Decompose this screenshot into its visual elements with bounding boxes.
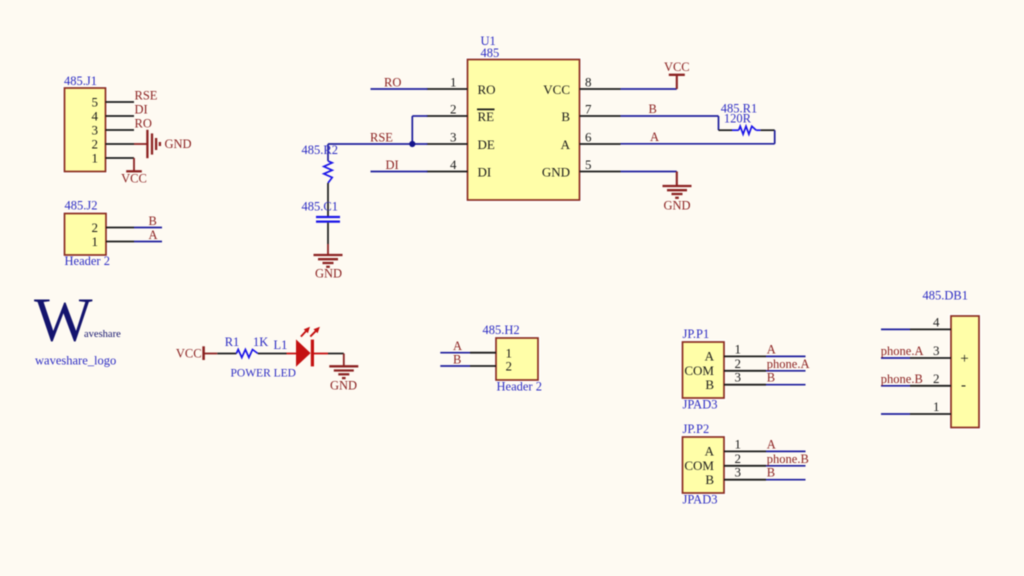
svg-text:phone.B: phone.B [767, 452, 809, 466]
svg-text:DI: DI [386, 158, 399, 172]
svg-text:3: 3 [450, 129, 457, 144]
svg-text:RSE: RSE [370, 130, 393, 144]
svg-text:485.J2: 485.J2 [65, 199, 98, 213]
svg-text:JP.P2: JP.P2 [683, 422, 710, 436]
svg-text:3: 3 [735, 370, 742, 385]
svg-text:B: B [453, 352, 461, 366]
svg-text:GND: GND [663, 199, 690, 213]
svg-text:B: B [767, 466, 775, 480]
svg-text:1: 1 [933, 399, 940, 414]
svg-text:W: W [34, 287, 93, 355]
svg-text:DE: DE [478, 137, 495, 152]
svg-text:RO: RO [478, 82, 496, 97]
svg-text:RE: RE [478, 109, 495, 124]
svg-text:B: B [705, 472, 714, 487]
svg-text:RO: RO [384, 75, 401, 89]
svg-text:RSE: RSE [135, 88, 158, 102]
svg-text:B: B [767, 371, 775, 385]
svg-text:485.DB1: 485.DB1 [923, 289, 969, 303]
svg-text:3: 3 [92, 123, 99, 138]
svg-text:GND: GND [315, 267, 342, 281]
svg-text:JPAD3: JPAD3 [683, 493, 718, 507]
svg-text:485.C1: 485.C1 [302, 200, 338, 214]
svg-text:1: 1 [735, 341, 742, 356]
svg-text:B: B [649, 102, 657, 116]
svg-text:2: 2 [92, 220, 99, 235]
svg-text:1: 1 [92, 151, 99, 166]
svg-text:6: 6 [585, 129, 592, 144]
svg-text:+: + [960, 351, 968, 367]
svg-text:GND: GND [542, 164, 570, 179]
svg-text:waveshare_logo: waveshare_logo [35, 354, 116, 368]
svg-text:A: A [149, 228, 158, 242]
svg-text:A: A [650, 130, 659, 144]
svg-text:DI: DI [135, 102, 148, 116]
svg-text:A: A [561, 137, 571, 152]
svg-text:5: 5 [585, 157, 592, 172]
svg-text:GND: GND [330, 379, 357, 393]
svg-text:RO: RO [135, 116, 152, 130]
svg-text:DI: DI [478, 164, 492, 179]
svg-text:Header 2: Header 2 [497, 380, 542, 394]
svg-text:3: 3 [933, 343, 940, 358]
svg-text:485.H2: 485.H2 [483, 323, 520, 337]
svg-text:phone.B: phone.B [881, 372, 923, 386]
svg-text:2: 2 [506, 359, 513, 374]
svg-text:1K: 1K [253, 335, 268, 349]
svg-text:-: - [961, 378, 966, 394]
svg-text:A: A [453, 339, 462, 353]
svg-text:GND: GND [165, 137, 192, 151]
svg-text:B: B [561, 109, 570, 124]
svg-text:B: B [705, 377, 714, 392]
svg-text:JPAD3: JPAD3 [683, 398, 718, 412]
svg-text:VCC: VCC [543, 82, 570, 97]
svg-text:2: 2 [735, 356, 742, 371]
svg-text:COM: COM [684, 363, 714, 378]
svg-text:4: 4 [92, 109, 99, 124]
svg-text:A: A [705, 444, 715, 459]
svg-text:3: 3 [735, 465, 742, 480]
svg-text:1: 1 [92, 234, 99, 249]
svg-text:485.R2: 485.R2 [302, 143, 338, 157]
svg-text:4: 4 [450, 157, 457, 172]
svg-text:2: 2 [92, 137, 99, 152]
svg-text:R1: R1 [225, 335, 240, 349]
svg-text:B: B [149, 214, 157, 228]
svg-text:POWER LED: POWER LED [231, 368, 296, 380]
svg-text:2: 2 [735, 451, 742, 466]
svg-text:7: 7 [585, 101, 592, 116]
svg-text:120R: 120R [724, 111, 752, 125]
svg-text:8: 8 [585, 74, 592, 89]
svg-text:5: 5 [92, 95, 99, 110]
svg-text:Header 2: Header 2 [65, 254, 110, 268]
svg-text:1: 1 [450, 74, 457, 89]
svg-text:2: 2 [933, 371, 940, 386]
svg-text:VCC: VCC [664, 60, 690, 74]
svg-text:4: 4 [933, 314, 940, 329]
svg-text:COM: COM [684, 458, 714, 473]
svg-text:VCC: VCC [176, 347, 202, 361]
svg-text:phone.A: phone.A [767, 357, 810, 371]
svg-text:A: A [767, 342, 776, 356]
svg-text:VCC: VCC [121, 172, 147, 186]
svg-text:2: 2 [450, 101, 457, 116]
svg-text:aveshare: aveshare [84, 329, 121, 340]
svg-text:A: A [767, 437, 776, 451]
svg-text:phone.A: phone.A [881, 344, 924, 358]
svg-text:JP.P1: JP.P1 [683, 327, 710, 341]
svg-text:A: A [705, 349, 715, 364]
svg-text:L1: L1 [274, 338, 288, 352]
svg-text:1: 1 [735, 436, 742, 451]
